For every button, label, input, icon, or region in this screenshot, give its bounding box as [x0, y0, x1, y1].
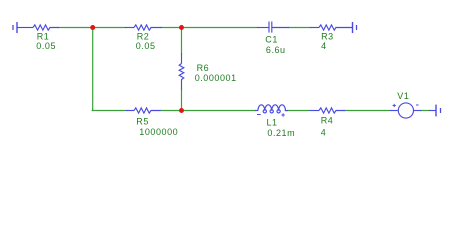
svg-text:1000000: 1000000 — [139, 127, 178, 137]
svg-text:R2: R2 — [137, 31, 150, 41]
svg-text:0.05: 0.05 — [36, 41, 56, 51]
svg-text:L1: L1 — [267, 117, 278, 127]
svg-text:4: 4 — [321, 127, 327, 137]
svg-text:R3: R3 — [321, 31, 334, 41]
svg-text:0.05: 0.05 — [136, 41, 156, 51]
svg-text:R5: R5 — [136, 117, 149, 127]
svg-text:4: 4 — [321, 41, 327, 51]
svg-text:C1: C1 — [265, 34, 278, 44]
svg-text:0.000001: 0.000001 — [195, 73, 237, 83]
svg-text:R4: R4 — [321, 116, 334, 126]
svg-text:R6: R6 — [197, 63, 210, 73]
svg-text:V1: V1 — [397, 91, 409, 101]
svg-text:6.6u: 6.6u — [266, 45, 286, 55]
svg-text:0.21m: 0.21m — [267, 128, 295, 138]
svg-text:R1: R1 — [37, 31, 50, 41]
